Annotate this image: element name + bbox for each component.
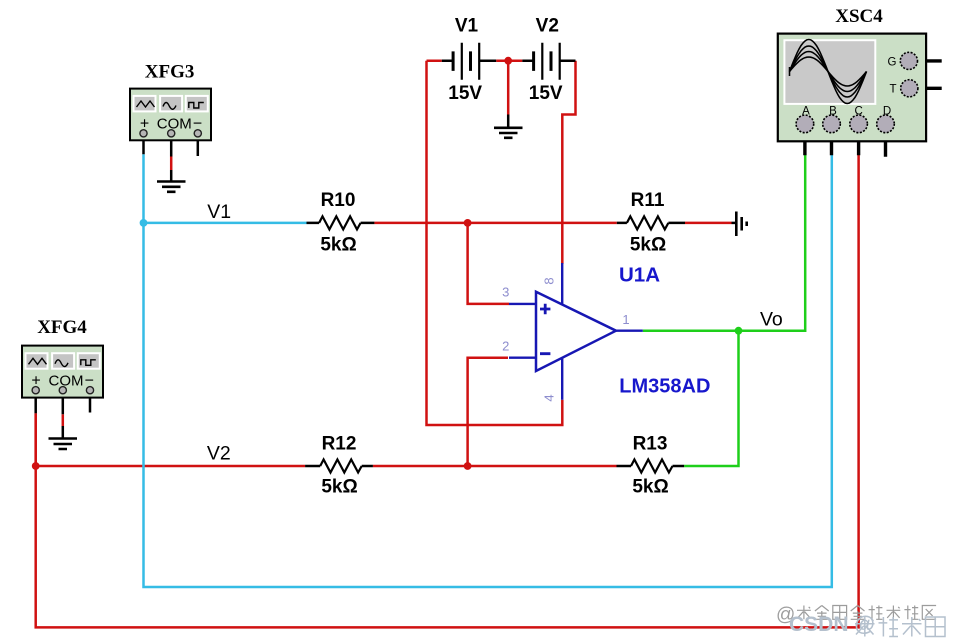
svg-text:3: 3 <box>502 285 509 300</box>
svg-text:V2: V2 <box>536 16 559 37</box>
svg-text:R12: R12 <box>322 434 357 455</box>
svg-text:COM: COM <box>49 373 84 390</box>
svg-text:5kΩ: 5kΩ <box>630 235 666 256</box>
svg-text:D: D <box>883 106 891 118</box>
svg-text:A: A <box>802 106 810 118</box>
svg-text:COM: COM <box>157 116 192 133</box>
svg-text:R13: R13 <box>633 434 668 455</box>
svg-text:8: 8 <box>542 277 557 284</box>
svg-text:V1: V1 <box>455 16 479 37</box>
svg-text:5kΩ: 5kΩ <box>320 235 356 256</box>
svg-text:5kΩ: 5kΩ <box>632 477 668 498</box>
svg-text:V1: V1 <box>207 201 231 223</box>
svg-text:T: T <box>889 83 896 95</box>
svg-text:5kΩ: 5kΩ <box>321 477 357 498</box>
svg-text:C: C <box>855 106 863 118</box>
svg-text:B: B <box>829 106 837 118</box>
svg-text:XFG4: XFG4 <box>37 317 87 338</box>
svg-text:U1A: U1A <box>619 264 660 287</box>
svg-text:15V: 15V <box>448 83 482 104</box>
svg-text:Vo: Vo <box>760 309 783 331</box>
svg-text:V2: V2 <box>207 443 231 465</box>
svg-text:4: 4 <box>542 394 557 401</box>
svg-text:XFG3: XFG3 <box>145 61 195 82</box>
svg-text:2: 2 <box>502 339 509 354</box>
svg-text:G: G <box>888 56 897 68</box>
svg-text:15V: 15V <box>529 83 563 104</box>
svg-text:XSC4: XSC4 <box>835 6 883 27</box>
svg-text:1: 1 <box>622 312 629 327</box>
svg-text:R10: R10 <box>321 190 356 211</box>
svg-text:R11: R11 <box>631 190 665 211</box>
svg-text:LM358AD: LM358AD <box>619 376 710 398</box>
